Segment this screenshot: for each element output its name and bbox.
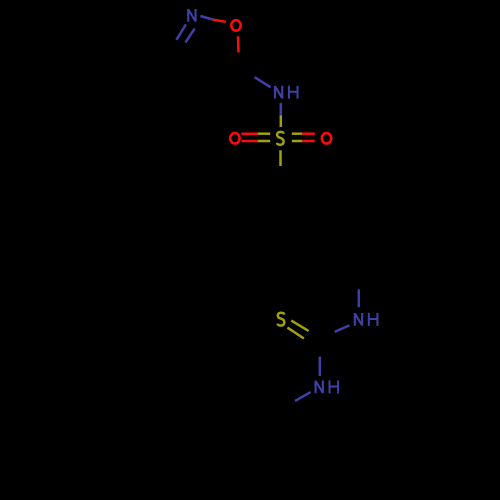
atom N-H thiourea bottom <box>316 380 339 393</box>
bond S=O right lower line (S half) <box>292 140 302 143</box>
atom N-H sulfonamide <box>275 86 298 99</box>
bond S=C upper line (S half) <box>291 321 308 331</box>
bond S=O left lower line (O half) <box>241 140 258 143</box>
atom N1 isoxazole <box>188 9 195 22</box>
bond N-S (S half) <box>280 115 283 127</box>
bond O1-C5 (O half) <box>237 36 240 52</box>
atom S sulfonyl <box>277 132 284 145</box>
bond S=C lower line (S half) <box>287 328 304 339</box>
bond N-S (N half) <box>280 103 283 115</box>
bond S=O left upper line (S half) <box>258 132 270 135</box>
atom O right of sulfonyl <box>322 133 331 143</box>
bond CH2-N thiourea top (N half) <box>358 289 361 307</box>
atom O left of sulfonyl <box>230 133 239 143</box>
bond S=O right upper line (O half) <box>302 132 315 135</box>
bond N1-O1 (N half) <box>200 16 212 20</box>
bond C5-N amide (N half) <box>255 77 271 87</box>
bond S=O left upper line (O half) <box>241 132 258 135</box>
bond C-N thiourea bottom (N half) <box>319 357 322 376</box>
bond S=O right lower line (O half) <box>302 140 315 143</box>
bond N-CH2 bottom (N half) <box>295 392 311 401</box>
bond N1-O1 (O half) <box>213 20 226 22</box>
bond S=O left lower line (S half) <box>258 140 270 143</box>
bond N1=C3 double line a (N half) <box>176 24 186 39</box>
bond N-C thiourea (N half) <box>335 325 350 332</box>
atom O1 isoxazole <box>231 20 240 30</box>
atom N-H thiourea top <box>355 313 378 326</box>
bond S-CH2 chain (S half) <box>279 150 282 166</box>
bond S=O right upper line (S half) <box>292 132 302 135</box>
atom S thiourea <box>278 313 285 326</box>
bond N1=C3 double line b (N half) <box>185 29 194 43</box>
